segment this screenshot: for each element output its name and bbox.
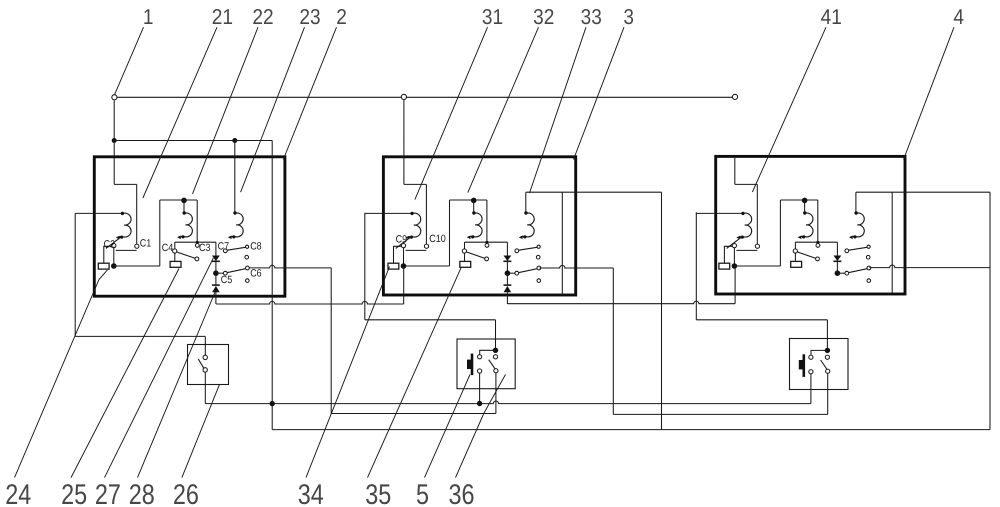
leader line 3: [574, 27, 625, 159]
svg-text:32: 32: [533, 5, 554, 29]
junction dot unit-a: [401, 263, 407, 269]
wire S3 LR drop: [827, 373, 829, 414]
wire pivot drop to junction: [733, 248, 735, 266]
wire C4 drop lower: [794, 253, 796, 261]
contact spare circle mid: [536, 255, 540, 259]
wire elbow to coil-rect: [104, 246, 112, 263]
wire junction to loop leg: [114, 265, 160, 267]
wire feed drop box1: [74, 213, 76, 336]
switch S2 contact LR: [494, 369, 498, 373]
leader line 35: [368, 267, 462, 477]
wire coil2 hang: [473, 200, 475, 212]
contact fixed circle (C6 type): [537, 266, 541, 270]
wire mid bar: [175, 241, 216, 243]
diode D-upper: [834, 256, 842, 262]
switch S1 arm: [198, 359, 204, 369]
wire elbow to coil-rect: [724, 246, 732, 263]
svg-text:23: 23: [299, 5, 320, 29]
wire box1 top jumper: [114, 140, 272, 142]
svg-text:C2: C2: [104, 239, 116, 251]
coil (middle relay winding): [180, 213, 192, 237]
switch S2 contact UR: [493, 355, 497, 359]
coil2 top dot: [183, 211, 186, 214]
contact spare circle mid: [245, 255, 249, 259]
leader line 22: [193, 27, 259, 194]
svg-text:25: 25: [61, 479, 87, 507]
wire diode chain box1-to-box2: [216, 301, 404, 304]
wire commutation rail box1: [271, 141, 273, 430]
contact pivot circle (C2 type): [112, 244, 116, 248]
wire feed drop box2: [364, 213, 366, 320]
wire to lower diode: [506, 273, 508, 285]
switch S3 box: [790, 339, 849, 390]
wire jog vertical x403.9: [403, 141, 405, 185]
wire pivot drop to junction: [113, 248, 115, 266]
leader line 4: [904, 27, 955, 159]
svg-text:C4: C4: [162, 242, 174, 254]
contact fixed (C1 type): [135, 244, 139, 248]
contact spare circle mid: [866, 255, 870, 259]
relay unit 4 box frame: [716, 156, 905, 294]
wire jog horizontal: [114, 183, 137, 185]
wire rail drop to box1: [113, 100, 115, 141]
wire loop left leg: [159, 200, 161, 266]
wire jog vertical x114.2: [113, 141, 115, 185]
wire C6 drop box1: [330, 268, 332, 414]
switch S3 contact LR: [826, 369, 830, 373]
contact arm end circle: [195, 257, 199, 261]
wire top supply rail: [114, 96, 735, 98]
diode D-lower: [212, 284, 220, 286]
coil top dot: [410, 212, 413, 215]
wire feed into switch S2: [495, 320, 497, 350]
contact arm circle (C5 type): [515, 271, 519, 275]
wire bottom bus B: [272, 429, 990, 431]
wire diode column mid: [506, 261, 508, 273]
leader line 33: [530, 27, 587, 193]
node dot S2 entry: [493, 348, 498, 353]
leader line 21: [143, 27, 217, 198]
contact fixed circle (C6 type): [246, 266, 250, 270]
leader line 41: [752, 27, 826, 192]
junction dot unit-a: [111, 263, 117, 269]
pushbutton S3 plunger: [803, 354, 806, 377]
wire bottom link box2C6-S3: [613, 413, 827, 415]
wire feed run box3: [696, 319, 827, 321]
contact fixed (C1 type): [755, 244, 759, 248]
contact arm (C4 type): [466, 252, 485, 259]
switch S2 arm: [489, 360, 496, 369]
wire jog horizontal: [404, 183, 427, 185]
wire coil feed: [365, 212, 411, 214]
coil2 top dot: [472, 211, 475, 214]
pushbutton S2 plunger: [471, 354, 474, 376]
contact pivot circle (C2 type): [732, 244, 736, 248]
contact fixed circle (C8 type): [246, 245, 249, 248]
contact arm (C5-C6): [227, 269, 245, 273]
wire S2 entry elbow: [480, 350, 496, 354]
wire jog drop to fixed contact: [136, 184, 138, 244]
node terminal left on rail: [112, 95, 117, 100]
svg-text:24: 24: [5, 479, 31, 507]
wire coil feed: [75, 212, 121, 214]
contact fixed circle (C8 type): [867, 245, 870, 248]
contact arm circle (C5 type): [223, 271, 227, 275]
wire elbow to coil-rect: [394, 246, 402, 263]
wire feed into switch S1: [204, 336, 206, 355]
wire coil feed: [696, 212, 742, 214]
wire diode column exit: [215, 292, 217, 304]
wire jog vertical x734.8000000000001: [734, 158, 736, 185]
wire commutation rail box3: [891, 192, 893, 294]
wire to lower diode: [215, 273, 217, 285]
wire diode column mid: [836, 261, 838, 273]
pushbutton S3 head: [799, 360, 803, 369]
svg-text:3: 3: [623, 5, 634, 29]
coil (middle relay winding): [470, 213, 482, 237]
junction dot loop top: [802, 198, 808, 204]
wire diode chain box2-to-box3: [507, 301, 735, 304]
svg-text:C8: C8: [250, 241, 262, 253]
contact arm (C2 type): [106, 237, 121, 249]
contact fixed circle (C3 type): [195, 244, 199, 248]
svg-text:26: 26: [173, 479, 199, 507]
leader line 27: [105, 258, 214, 478]
contact arm (C4 type): [797, 252, 816, 259]
relay unit 3 box frame: [383, 157, 575, 295]
wire C4 drop upper: [174, 242, 176, 249]
coil top dot: [121, 212, 124, 215]
leader line 23: [241, 27, 305, 192]
wire right riser: [989, 192, 991, 429]
wire C6 output box3: [869, 265, 990, 268]
coil3 top dot box3: [854, 211, 857, 214]
contact arm (C2 type): [396, 237, 411, 249]
wire jog drop to fixed contact: [756, 184, 758, 244]
wire loop top: [160, 199, 197, 201]
contact spare circle low: [246, 279, 250, 283]
coil (right relay winding box2): [522, 213, 534, 237]
svg-text:5: 5: [416, 479, 429, 507]
wire riser to box2 junction: [403, 267, 405, 304]
contact pivot circle (C4 type): [462, 249, 466, 253]
contact spare circle low: [867, 279, 871, 283]
switch S1 box: [188, 345, 229, 385]
wire loop left leg: [449, 200, 451, 266]
coil (right relay winding box1): [231, 213, 243, 237]
wire jog horizontal: [735, 183, 758, 185]
wire loop left leg: [779, 200, 781, 266]
leader line 25: [71, 269, 179, 478]
leader line 2: [283, 27, 336, 159]
switch S3 contact LL: [809, 370, 813, 374]
svg-text:21: 21: [212, 5, 233, 29]
contact pivot circle (C2 type): [401, 244, 405, 248]
coil3 top dot box2: [524, 211, 527, 214]
coil top dot: [741, 212, 744, 215]
svg-text:C5: C5: [221, 274, 233, 286]
diode D-lower: [504, 284, 512, 286]
wire coil3 riser box3: [855, 192, 857, 212]
diode D-upper: [504, 256, 512, 262]
leader line 26: [182, 385, 219, 478]
switch S1 top contact: [203, 355, 207, 359]
wire loop top: [780, 199, 817, 201]
wire junction to loop leg: [404, 265, 450, 267]
contact pivot circle (C7 type): [223, 249, 227, 253]
contact arm (C5-C6): [849, 269, 867, 273]
leader line 31: [415, 27, 488, 199]
wire C6 output box2: [539, 265, 613, 268]
wire bottom link box1C6-S2: [331, 413, 496, 415]
contact fixed circle (C6 type): [867, 266, 871, 270]
switch S3 contact UL: [809, 355, 813, 359]
wire coil2 hang: [804, 200, 806, 212]
svg-text:35: 35: [365, 479, 391, 507]
wire S3 LL drop: [810, 374, 812, 404]
svg-text:C6: C6: [250, 267, 262, 279]
svg-text:4: 4: [953, 5, 964, 29]
wire S2 LL drop: [479, 373, 481, 403]
svg-text:C1: C1: [140, 238, 152, 250]
coil (left relay winding): [740, 213, 752, 237]
wire feed run box1: [75, 335, 205, 337]
wire C4 drop upper: [464, 242, 466, 249]
wire link under fixed contact: [116, 249, 137, 251]
wire dot to arm circle: [216, 272, 223, 274]
svg-text:34: 34: [298, 479, 324, 507]
junction dot coil L3 feed: [232, 138, 237, 143]
leader line 28: [138, 292, 216, 478]
wire mid bar: [795, 241, 837, 243]
svg-text:2: 2: [336, 5, 347, 29]
contact arm (C7-C8): [227, 247, 245, 250]
junction dot loop top: [181, 198, 187, 204]
contact arm end circle: [816, 257, 820, 261]
contact arm (C2 type): [727, 237, 742, 249]
relay actuator rect (left): [388, 263, 399, 269]
node terminal middle on rail: [401, 94, 406, 99]
svg-text:C9: C9: [396, 233, 408, 245]
junction dot bus A S2: [477, 401, 482, 406]
wire C4 drop upper: [794, 242, 796, 249]
diode D-upper: [212, 256, 220, 262]
wire loop top: [450, 199, 487, 201]
relay actuator rect (middle): [170, 261, 181, 267]
wire C6 drop box2: [612, 268, 614, 414]
switch S2 box: [457, 339, 515, 389]
svg-text:C7: C7: [218, 241, 230, 253]
relay unit 2 box frame: [94, 157, 285, 296]
node terminal right on rail: [732, 94, 737, 99]
node dot S3 entry: [825, 348, 830, 353]
wire loop right leg: [196, 200, 198, 242]
contact fixed circle (C3 type): [485, 244, 489, 248]
junction small dot mid bar: [196, 241, 199, 244]
wire link under fixed contact: [406, 249, 427, 251]
wire feed into switch S3: [826, 320, 828, 350]
junction dot diode column: [505, 270, 511, 276]
wire feed drop box3: [695, 212, 697, 319]
wire coil3 hang box1: [234, 141, 236, 213]
wire junction to loop leg: [734, 265, 780, 267]
wire S2 LR drop: [495, 373, 497, 414]
svg-text:C10: C10: [429, 233, 446, 245]
contact arm (C4 type): [177, 252, 196, 259]
svg-text:1: 1: [143, 5, 154, 29]
wire jog drop to fixed contact: [425, 184, 427, 244]
svg-text:27: 27: [95, 479, 121, 507]
contact spare circle low: [537, 279, 541, 283]
junction dot box1 drop: [112, 138, 117, 143]
coil2 top dot: [803, 211, 806, 214]
wire coil3 top exit box3: [856, 191, 990, 193]
relay actuator rect (left): [98, 263, 109, 269]
junction dot diode column: [835, 270, 841, 276]
wire commutation rail box2: [561, 192, 563, 295]
coil (left relay winding): [409, 213, 421, 237]
wire C4 drop lower: [174, 253, 176, 261]
wire mid bar: [465, 241, 508, 243]
junction small dot mid bar: [485, 241, 488, 244]
wire loop right leg: [817, 200, 819, 242]
wire C4 drop lower: [464, 253, 466, 261]
switch S3 arm: [821, 360, 828, 370]
pushbutton S2 head: [467, 360, 471, 369]
wire coil3 feed drop box2: [661, 192, 663, 429]
wire loop right leg: [486, 200, 488, 242]
leader line 1: [115, 27, 144, 94]
leader line 5: [425, 375, 471, 478]
contact fixed circle (C3 type): [816, 244, 820, 248]
svg-text:31: 31: [482, 5, 503, 29]
wire coil3 riser box2: [525, 192, 527, 212]
contact fixed circle (C8 type): [537, 245, 540, 248]
svg-text:41: 41: [821, 5, 842, 29]
wire diode column top: [836, 242, 838, 255]
contact pivot circle (C7 type): [845, 249, 849, 253]
wire rail drop to box2: [403, 100, 405, 141]
wire feed run box2: [365, 319, 496, 321]
wire dot to arm circle: [507, 272, 514, 274]
contact pivot circle (C7 type): [515, 249, 519, 253]
switch S2 contact LL: [478, 369, 482, 373]
wire S3 entry elbow: [811, 350, 827, 354]
svg-text:36: 36: [449, 479, 475, 507]
contact arm (C7-C8): [519, 247, 537, 250]
wire link under fixed contact: [736, 249, 757, 251]
switch S1 bottom contact: [203, 368, 207, 372]
svg-text:C3: C3: [199, 242, 211, 254]
contact pivot circle (C4 type): [173, 249, 177, 253]
wire diode column exit: [506, 292, 508, 304]
junction dot loop top: [471, 198, 477, 204]
leader line 32: [468, 27, 539, 192]
junction dot bus A rail: [270, 401, 275, 406]
junction dot diode column: [213, 270, 219, 276]
coil3 top dot box1: [233, 211, 236, 214]
relay actuator rect (middle): [791, 261, 802, 267]
wire riser to box3 junction: [734, 268, 736, 304]
wire pivot drop to junction: [403, 248, 405, 266]
leader line 36: [456, 375, 506, 478]
wire S1 output: [204, 372, 206, 404]
wire coil3 top exit box2: [526, 191, 662, 193]
contact arm circle (C5 type): [845, 271, 849, 275]
leader line 24: [15, 270, 108, 478]
relay actuator rect (middle): [460, 261, 471, 267]
wire diode column top: [215, 242, 217, 255]
wire C6 output box1: [249, 265, 331, 268]
wire bottom bus A: [205, 401, 811, 404]
relay actuator rect (left): [719, 263, 730, 269]
switch S3 contact UR: [825, 355, 829, 359]
junction small dot mid bar: [816, 241, 819, 244]
svg-text:33: 33: [581, 5, 602, 29]
contact arm end circle: [485, 257, 489, 261]
switch S2 contact UL: [478, 355, 482, 359]
leader line 34: [306, 267, 390, 478]
junction dot unit-a: [732, 263, 738, 269]
svg-text:22: 22: [252, 5, 273, 29]
coil (right relay winding box3): [852, 213, 864, 237]
wire coil2 hang: [183, 200, 185, 212]
wire diode column top: [506, 242, 508, 255]
contact arm (C5-C6): [519, 269, 537, 273]
contact fixed (C1 type): [424, 244, 428, 248]
wire dot to arm circle: [837, 272, 844, 274]
svg-text:28: 28: [129, 479, 155, 507]
coil (left relay winding): [119, 213, 131, 237]
contact arm (C7-C8): [849, 247, 867, 250]
coil (middle relay winding): [801, 213, 813, 237]
contact pivot circle (C4 type): [793, 249, 797, 253]
wire diode column mid: [215, 261, 217, 273]
